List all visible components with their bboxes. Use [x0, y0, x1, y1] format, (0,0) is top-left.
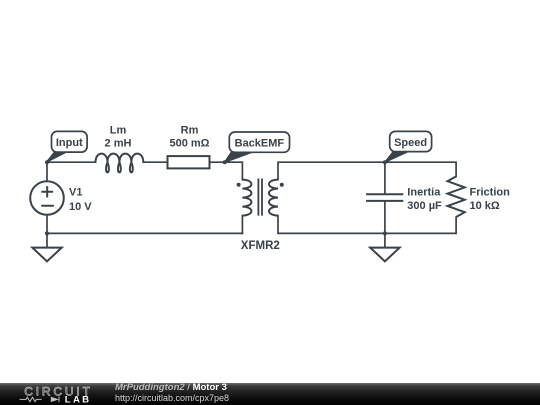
node bottom-left junction dot [45, 231, 49, 235]
wire V1 bottom stub [46, 215, 48, 234]
inductor Lm [96, 154, 144, 173]
svg-text:10 kΩ: 10 kΩ [470, 200, 500, 212]
svg-text:10 V: 10 V [69, 201, 92, 213]
wire bottom left rail [47, 232, 242, 234]
label Rm value [169, 125, 209, 150]
resistor Friction (zigzag) [448, 176, 465, 217]
net flag Input [47, 131, 87, 162]
svg-text:XFMR2: XFMR2 [241, 240, 280, 252]
wire Speed node to capacitor top [384, 162, 386, 194]
ground (right) [370, 248, 399, 262]
wire bottom right rail [278, 216, 456, 234]
svg-text:Rm: Rm [181, 125, 199, 137]
wire resistor Rm to BackEMF node [210, 161, 225, 163]
wire transformer primary bottom stub [241, 216, 243, 234]
phase dot primary [237, 183, 241, 187]
primary winding [242, 180, 251, 216]
node Input junction dot [45, 160, 49, 164]
transformer XFMR2 [242, 179, 278, 216]
wire capacitor bottom stub [384, 201, 386, 234]
node Speed junction dot [383, 160, 387, 164]
svg-text:V1: V1 [69, 187, 82, 199]
label Inertia value [407, 186, 442, 212]
svg-text:2 mH: 2 mH [105, 137, 132, 149]
svg-text:BackEMF: BackEMF [235, 138, 285, 150]
net flag Speed [385, 131, 432, 162]
ground (left) [32, 248, 61, 262]
capacitor Inertia [366, 194, 403, 201]
svg-text:Friction: Friction [470, 186, 511, 198]
wire left ground stub [46, 233, 48, 247]
wire right ground stub [384, 233, 386, 247]
svg-text:Lm: Lm [110, 125, 127, 137]
node BackEMF junction dot [223, 160, 227, 164]
core lines [258, 179, 262, 216]
node bottom-right junction dot [383, 231, 387, 235]
label Friction value [470, 186, 511, 212]
svg-text:500 mΩ: 500 mΩ [169, 137, 209, 149]
secondary winding [269, 180, 278, 216]
net flag BackEMF [225, 132, 290, 162]
phase dot secondary [280, 183, 284, 187]
svg-text:LAB: LAB [65, 395, 92, 405]
wire input node to inductor [47, 161, 96, 163]
CircuitLab logo [15, 383, 115, 405]
voltage source V1 [30, 181, 92, 215]
wire inductor to resistor Rm [143, 161, 167, 163]
svg-text:Speed: Speed [394, 137, 427, 149]
svg-text:300 µF: 300 µF [407, 200, 442, 212]
svg-text:Input: Input [56, 137, 83, 149]
resistor Rm [168, 156, 210, 168]
svg-text:Inertia: Inertia [407, 186, 441, 198]
wire transformer secondary top to Friction top [278, 162, 456, 179]
wire BackEMF node to transformer primary top [225, 162, 243, 179]
wire V1 top stub [46, 162, 48, 181]
attribution text [115, 383, 229, 404]
label Lm value [105, 125, 132, 150]
footer attribution bar [0, 383, 540, 405]
